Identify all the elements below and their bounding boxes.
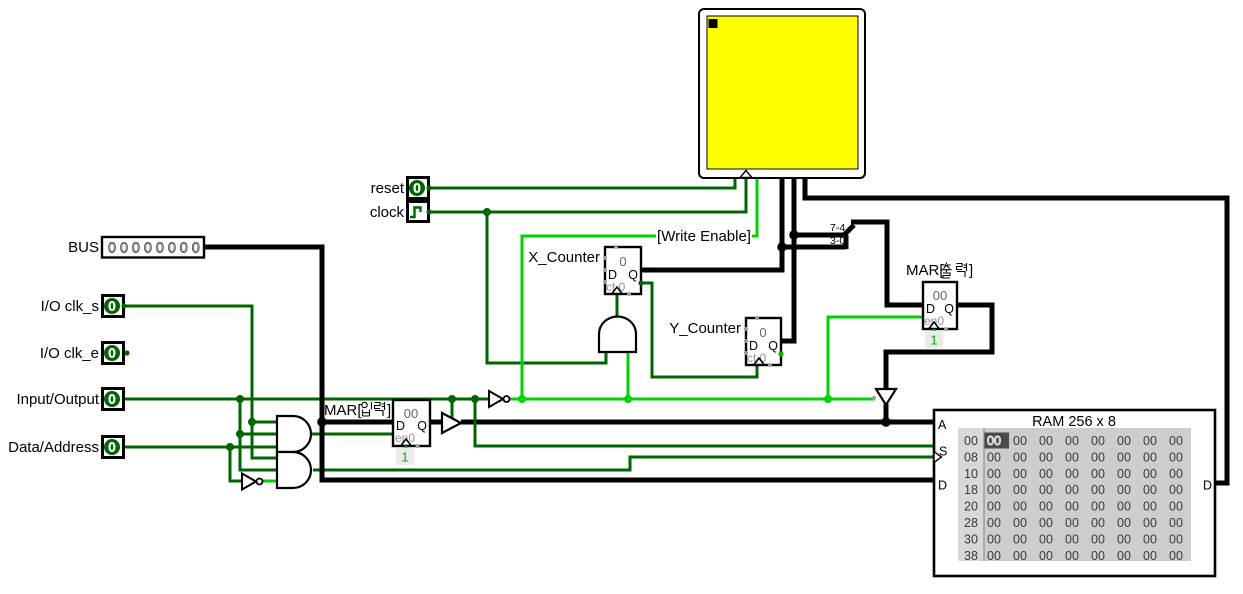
junction address line and buffer B2 output xyxy=(881,417,891,427)
wire Input/Output branch to RAM S xyxy=(475,399,934,446)
wire enable stub to buffer B1 xyxy=(451,399,454,419)
counter X_Counter xyxy=(528,245,643,296)
svg-text:D: D xyxy=(1203,479,1212,493)
label MAR[output] with hangul xyxy=(906,262,973,279)
junction bus to MAR[in] D xyxy=(317,417,327,427)
pin clock xyxy=(370,202,432,222)
junction display port2 splitter 7-4 xyxy=(789,230,799,240)
wire Input/Output main run to NOT gate U2 xyxy=(124,398,489,401)
svg-text:0: 0 xyxy=(109,300,116,314)
junction MAR[out] enable riser xyxy=(824,395,832,403)
junction Write Enable to G3 xyxy=(624,395,632,403)
register MAR[in] xyxy=(393,400,430,449)
wire NOT U1 output to AND G2 input xyxy=(263,480,277,483)
svg-text:7-4: 7-4 xyxy=(830,222,845,234)
svg-text:X_Counter: X_Counter xyxy=(528,249,600,266)
NOT gate U2 Input/Output inverter xyxy=(489,391,510,407)
label Write Enable xyxy=(656,228,752,245)
wire buffer B2 output to address line xyxy=(884,404,889,422)
junction Data/Address branch xyxy=(226,443,234,451)
wire MAR[in] Q to buffer B1 xyxy=(430,420,442,425)
svg-text:Q: Q xyxy=(944,302,954,316)
wire NOT U2 output Write-Enable run to buffer B2 enable xyxy=(509,398,875,401)
svg-text:0: 0 xyxy=(109,393,116,407)
svg-text:Input/Output: Input/Output xyxy=(16,391,99,408)
svg-text:0: 0 xyxy=(109,347,116,361)
junction Write Enable riser xyxy=(518,395,526,403)
wire Y_Counter Q to display port2 xyxy=(782,175,794,341)
controlled buffer B2 MAR[out] address driver pointing down xyxy=(872,389,896,405)
pin reset xyxy=(371,178,432,199)
svg-text:0: 0 xyxy=(414,182,421,196)
wire AND G2 output to RAM clock xyxy=(313,457,934,470)
wire Input-Output S riser redraw over address line xyxy=(474,416,477,430)
svg-text:BUS: BUS xyxy=(68,239,99,256)
svg-text:00: 00 xyxy=(404,406,418,421)
wire Write Enable to AND G3 input xyxy=(627,352,630,399)
junction RAM S branch xyxy=(471,395,479,403)
junction Input/Output to AND G1 xyxy=(236,430,244,438)
svg-text:18: 18 xyxy=(964,483,978,497)
pin BUS output probe xyxy=(68,237,204,258)
RAM address column xyxy=(964,434,978,563)
wire splitter 7-4 branch xyxy=(794,233,843,238)
svg-text:30: 30 xyxy=(964,532,978,546)
wire AND G3 output to X_Counter clock xyxy=(616,293,619,317)
label MAR[input] with hangul xyxy=(324,402,391,419)
value tag 1 under MAR[out] xyxy=(925,331,943,348)
wire clock pin to display clock input xyxy=(429,175,746,212)
wire X_Counter Q to display port1 xyxy=(641,175,782,270)
svg-text:]: ] xyxy=(387,402,391,419)
wire X_Counter carry to Y_Counter clock xyxy=(641,283,757,377)
svg-text:3-0: 3-0 xyxy=(830,235,845,247)
AND gate G2 RAM write clock xyxy=(277,452,311,488)
wire MAR[out] Q loop to buffer B2 xyxy=(886,305,992,390)
svg-text:Data/Address: Data/Address xyxy=(8,439,99,456)
pin I/O clk_e xyxy=(40,343,130,364)
svg-text:MAR[: MAR[ xyxy=(324,402,362,419)
svg-text:10: 10 xyxy=(964,467,978,481)
pin Data/Address xyxy=(8,437,123,458)
pin Input/Output xyxy=(16,389,123,410)
wire Data/Address to AND G1 and NOT U1 xyxy=(124,447,277,481)
svg-text:0: 0 xyxy=(109,441,116,455)
wire Input/Output branch to AND gates xyxy=(240,399,277,470)
wire AND G1 output to MAR[in] enable xyxy=(311,433,393,436)
svg-text:28: 28 xyxy=(964,516,978,530)
svg-text:1: 1 xyxy=(930,333,937,348)
counter Y_Counter xyxy=(669,316,783,367)
junction Input/Output branch xyxy=(236,395,244,403)
wire splitter 3-0 branch xyxy=(782,245,846,250)
AND gate G1 MAR enable xyxy=(277,416,311,452)
wire reset pin to display reset input xyxy=(429,175,735,188)
svg-text:38: 38 xyxy=(964,549,978,563)
svg-text:I/O clk_e: I/O clk_e xyxy=(40,345,99,362)
junction clock branch xyxy=(483,208,491,216)
wire display port3 to RAM right D xyxy=(805,175,1227,483)
svg-text:D: D xyxy=(938,479,947,493)
wire Write Enable to MAR[out] enable xyxy=(828,317,923,399)
svg-text:[Write Enable]: [Write Enable] xyxy=(657,228,751,245)
svg-text:MAR[: MAR[ xyxy=(906,262,944,279)
junction buffer B1 enable xyxy=(448,395,456,403)
LED matrix display DSP1 xyxy=(699,9,865,178)
svg-text:]: ] xyxy=(969,262,973,279)
svg-text:clock: clock xyxy=(370,204,405,221)
pin I/O clk_s xyxy=(41,296,127,317)
RAM 256x8 memory block xyxy=(934,410,1215,576)
svg-text:00: 00 xyxy=(964,434,978,448)
junction clk_s to AND G1 xyxy=(248,418,256,426)
svg-text:Y_Counter: Y_Counter xyxy=(669,320,741,337)
svg-text:00: 00 xyxy=(933,288,947,303)
svg-text:1: 1 xyxy=(401,450,408,465)
svg-text:A: A xyxy=(938,418,947,432)
svg-text:Q: Q xyxy=(628,268,638,282)
svg-text:Q: Q xyxy=(417,419,427,433)
svg-text:00000000: 00000000 xyxy=(108,241,204,257)
svg-text:Q: Q xyxy=(768,339,778,353)
junction display port1 splitter 3-0 xyxy=(777,242,787,252)
svg-text:reset: reset xyxy=(371,180,405,197)
svg-text:0: 0 xyxy=(759,325,766,340)
svg-text:RAM 256 x 8: RAM 256 x 8 xyxy=(1032,414,1116,430)
svg-text:I/O clk_s: I/O clk_s xyxy=(41,298,99,315)
svg-text:08: 08 xyxy=(964,450,978,464)
wire Write Enable up to display xyxy=(522,175,757,399)
AND gate G3 counter clock pointing up xyxy=(599,317,636,353)
wire I/O clk_s to AND gates xyxy=(124,306,277,458)
wire data bus BUS pin to MAR[in] D and RAM left D xyxy=(205,247,934,480)
wire clock branch to counter clock AND gate xyxy=(487,212,606,363)
splitter SP1 spine and trunk to MAR[out] D xyxy=(843,222,923,305)
svg-text:0: 0 xyxy=(619,254,626,269)
controlled buffer B1 MAR[in] address driver xyxy=(442,413,461,433)
register MAR[out] xyxy=(923,282,957,332)
RAM data cells xyxy=(987,434,1183,563)
value tag 1 under MAR[in] xyxy=(396,448,414,465)
svg-text:20: 20 xyxy=(964,500,978,514)
NOT gate U1 Data/Address inverter xyxy=(242,474,263,490)
wire address line buffer B1 to RAM A xyxy=(461,420,934,425)
